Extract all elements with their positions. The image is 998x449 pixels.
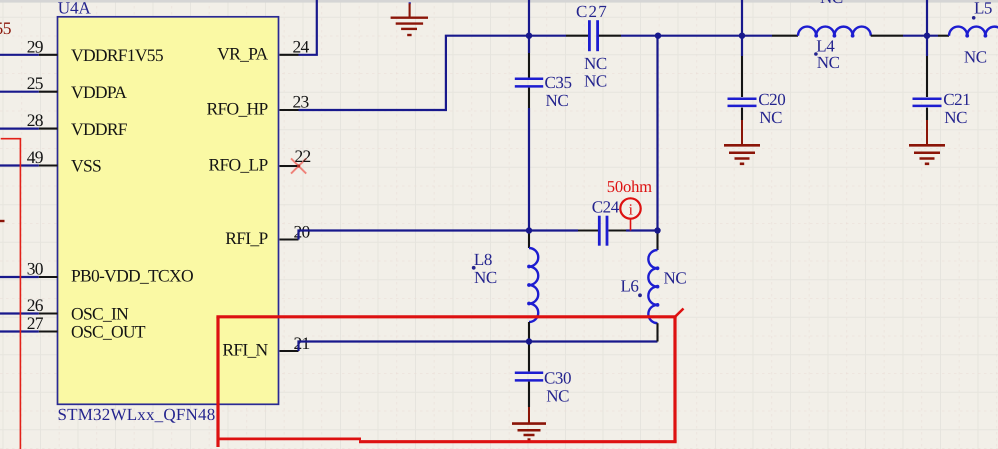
svg-text:L6: L6 — [621, 277, 639, 296]
dark red tick at left edge — [0, 220, 5, 222]
svg-text:C24: C24 — [592, 198, 620, 217]
ground below C30 — [512, 407, 546, 440]
pin 25 VDDPA (left) — [0, 73, 127, 102]
net label 55 (clipped) — [0, 18, 12, 38]
svg-text:L8: L8 — [474, 250, 492, 269]
ground below C20 — [724, 120, 760, 164]
wire net RFI_P horizontal — [299, 231, 579, 240]
probe marker i — [620, 198, 640, 230]
pin 21 RFI_N — [222, 333, 309, 360]
svg-text:25: 25 — [27, 73, 44, 93]
svg-text:NC: NC — [759, 108, 782, 127]
capacitor C27 — [566, 2, 621, 91]
svg-text:28: 28 — [27, 110, 44, 130]
IC U4A part name STM32WLxx_QFN48 — [58, 405, 216, 424]
svg-text:NC: NC — [964, 47, 987, 66]
svg-text:NC: NC — [584, 72, 607, 91]
svg-text:OSC_OUT: OSC_OUT — [71, 322, 146, 342]
wire top bus segment L4 right — [903, 35, 938, 37]
ground below C21 — [909, 120, 945, 164]
svg-text:21: 21 — [294, 333, 310, 353]
junction J3 — [739, 33, 745, 39]
wire net RFO_HP to top bus — [299, 36, 530, 110]
svg-text:55: 55 — [0, 18, 12, 38]
pin 22 RFO_LP (unconnected) — [208, 146, 310, 175]
junction J1 — [526, 33, 532, 39]
wire vertical from top at x=742 — [741, 0, 743, 36]
svg-text:30: 30 — [27, 259, 44, 279]
red bus line left — [1, 139, 21, 449]
svg-text:VSS: VSS — [71, 156, 101, 176]
pin 30 PB0-VDD_TCXO (left) — [0, 259, 193, 286]
svg-text:STM32WLxx_QFN48: STM32WLxx_QFN48 — [58, 405, 216, 424]
clipped text at top edge — [820, 0, 843, 7]
svg-text:C27: C27 — [576, 2, 608, 21]
no-ERC cross on pin 22 — [291, 158, 306, 173]
svg-text:VDDRF1V55: VDDRF1V55 — [71, 45, 164, 65]
wire net VR_PA — [299, 0, 317, 55]
svg-text:RFI_N: RFI_N — [222, 340, 268, 360]
inductor L8 — [472, 231, 538, 342]
IC U4A body — [58, 17, 279, 405]
pin 49 VSS (left) — [0, 147, 101, 176]
wire vertical x=657.5 bus to RFI_P — [656, 36, 658, 231]
inductor L5 — [938, 0, 998, 66]
svg-text:NC: NC — [820, 0, 843, 7]
svg-text:26: 26 — [27, 295, 44, 315]
svg-text:NC: NC — [584, 54, 607, 73]
svg-text:RFI_P: RFI_P — [225, 228, 268, 248]
svg-text:24: 24 — [293, 36, 310, 56]
svg-text:22: 22 — [295, 146, 311, 166]
wire C35 bottom to RFI_P junction — [528, 108, 530, 231]
capacitor C35 — [515, 36, 572, 110]
svg-text:L5: L5 — [974, 0, 992, 18]
net label 50ohm — [607, 177, 652, 196]
svg-text:27: 27 — [27, 313, 44, 333]
junction J5 — [526, 227, 532, 233]
svg-text:29: 29 — [27, 36, 44, 56]
svg-text:RFO_HP: RFO_HP — [207, 99, 269, 119]
capacitor C21 — [913, 36, 971, 128]
inductor L4 — [772, 27, 903, 73]
svg-text:RFO_LP: RFO_LP — [208, 154, 268, 174]
svg-text:NC: NC — [664, 268, 687, 287]
wire vertical from top at x=927 — [926, 0, 928, 36]
svg-text:NC: NC — [474, 268, 497, 287]
svg-text:C30: C30 — [544, 368, 571, 387]
svg-text:49: 49 — [27, 147, 44, 167]
capacitor C30 — [515, 342, 571, 408]
svg-text:NC: NC — [546, 91, 569, 110]
svg-text:PB0-VDD_TCXO: PB0-VDD_TCXO — [71, 266, 193, 286]
ground top (power port) — [391, 2, 428, 35]
wire top bus segment C27 left — [529, 35, 566, 37]
pin 28 VDDRF (left) — [0, 110, 128, 139]
junction J6 — [654, 227, 660, 233]
wire vertical from top at x=529 — [528, 0, 530, 36]
pin 27 OSC_OUT (left) — [0, 313, 146, 342]
svg-text:C20: C20 — [758, 90, 785, 109]
inductor L6 — [621, 231, 687, 342]
pin 26 OSC_IN (left) — [0, 295, 129, 324]
svg-text:NC: NC — [944, 108, 967, 127]
svg-text:VDDRF: VDDRF — [71, 119, 128, 139]
wire top bus segment C27 right to C20 — [621, 35, 772, 37]
red highlight rectangle around RFI_N — [216, 309, 683, 448]
pin 24 VR_PA — [217, 36, 309, 63]
pin 20 RFI_P — [225, 222, 310, 249]
svg-text:NC: NC — [817, 53, 840, 72]
svg-text:50ohm: 50ohm — [607, 177, 652, 196]
pin 23 RFO_HP — [207, 92, 310, 119]
capacitor C24 — [578, 198, 658, 246]
svg-text:NC: NC — [546, 387, 569, 406]
junction J7 — [526, 338, 532, 344]
svg-text:23: 23 — [293, 92, 310, 112]
junction J4 — [924, 33, 930, 39]
wire net RFI_N horizontal — [299, 342, 658, 352]
svg-text:VR_PA: VR_PA — [217, 44, 268, 64]
svg-text:OSC_IN: OSC_IN — [71, 304, 129, 324]
svg-text:C35: C35 — [545, 73, 572, 92]
pin 29 VDDRF1V55 (left) — [0, 36, 164, 65]
svg-text:C21: C21 — [943, 90, 970, 109]
svg-text:VDDPA: VDDPA — [71, 82, 127, 102]
svg-text:U4A: U4A — [58, 0, 92, 17]
IC U4A designator — [58, 0, 92, 17]
capacitor C20 — [728, 36, 786, 128]
junction J2 — [655, 33, 661, 39]
